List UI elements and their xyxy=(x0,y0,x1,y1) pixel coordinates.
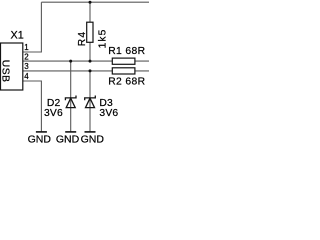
resistor R2 body xyxy=(112,68,135,74)
diode D2 zener symbol xyxy=(65,96,76,108)
wire D- line (node line1) xyxy=(23,60,149,62)
wire D2 branch xyxy=(70,61,72,131)
svg-text:1k5: 1k5 xyxy=(97,28,108,48)
junction dot line1/R4 xyxy=(89,60,92,63)
ground bar pin4 xyxy=(36,131,47,133)
wire D+ line (node line2) xyxy=(23,70,149,72)
svg-text:2: 2 xyxy=(24,52,29,61)
svg-text:R2 68R: R2 68R xyxy=(108,77,145,88)
diode D3 zener symbol xyxy=(85,96,96,108)
svg-text:X1: X1 xyxy=(11,29,24,41)
svg-text:3V6: 3V6 xyxy=(44,108,63,119)
connector X1 USB box xyxy=(1,43,23,90)
svg-text:R4: R4 xyxy=(77,31,88,47)
junction dot rail/R4 xyxy=(89,1,92,4)
svg-text:R1 68R: R1 68R xyxy=(108,46,145,57)
junction dot line1/D2 xyxy=(69,60,72,63)
svg-text:GND: GND xyxy=(28,134,52,143)
ground bar D3 xyxy=(85,131,96,133)
svg-text:1: 1 xyxy=(24,43,29,52)
wire D3 branch xyxy=(89,71,91,131)
wire pin4 to ground xyxy=(23,81,42,131)
resistor R4 body xyxy=(87,22,93,42)
wire R4 leads xyxy=(89,2,91,61)
ground bar D2 xyxy=(65,131,76,133)
svg-text:GND: GND xyxy=(56,134,80,143)
svg-text:USB: USB xyxy=(0,60,11,83)
svg-text:3: 3 xyxy=(24,62,29,71)
svg-text:3V6: 3V6 xyxy=(99,108,118,119)
wire VBUS top rail xyxy=(41,1,149,3)
wire pin1 to rail xyxy=(23,2,42,52)
junction dot line2/D3 xyxy=(89,69,92,72)
svg-text:GND: GND xyxy=(81,134,105,143)
svg-text:4: 4 xyxy=(24,72,29,81)
resistor R1 body xyxy=(112,58,135,64)
